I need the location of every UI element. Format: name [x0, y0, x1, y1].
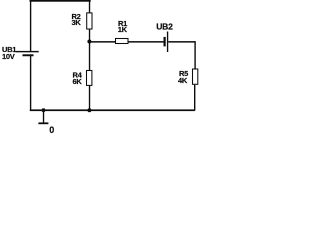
svg-text:3K: 3K: [72, 18, 82, 27]
svg-text:0: 0: [49, 125, 54, 135]
svg-text:6K: 6K: [73, 77, 83, 86]
svg-text:1K: 1K: [118, 25, 128, 34]
svg-text:4K: 4K: [178, 76, 188, 85]
svg-text:10V: 10V: [2, 52, 15, 61]
svg-text:UB2: UB2: [156, 21, 173, 31]
